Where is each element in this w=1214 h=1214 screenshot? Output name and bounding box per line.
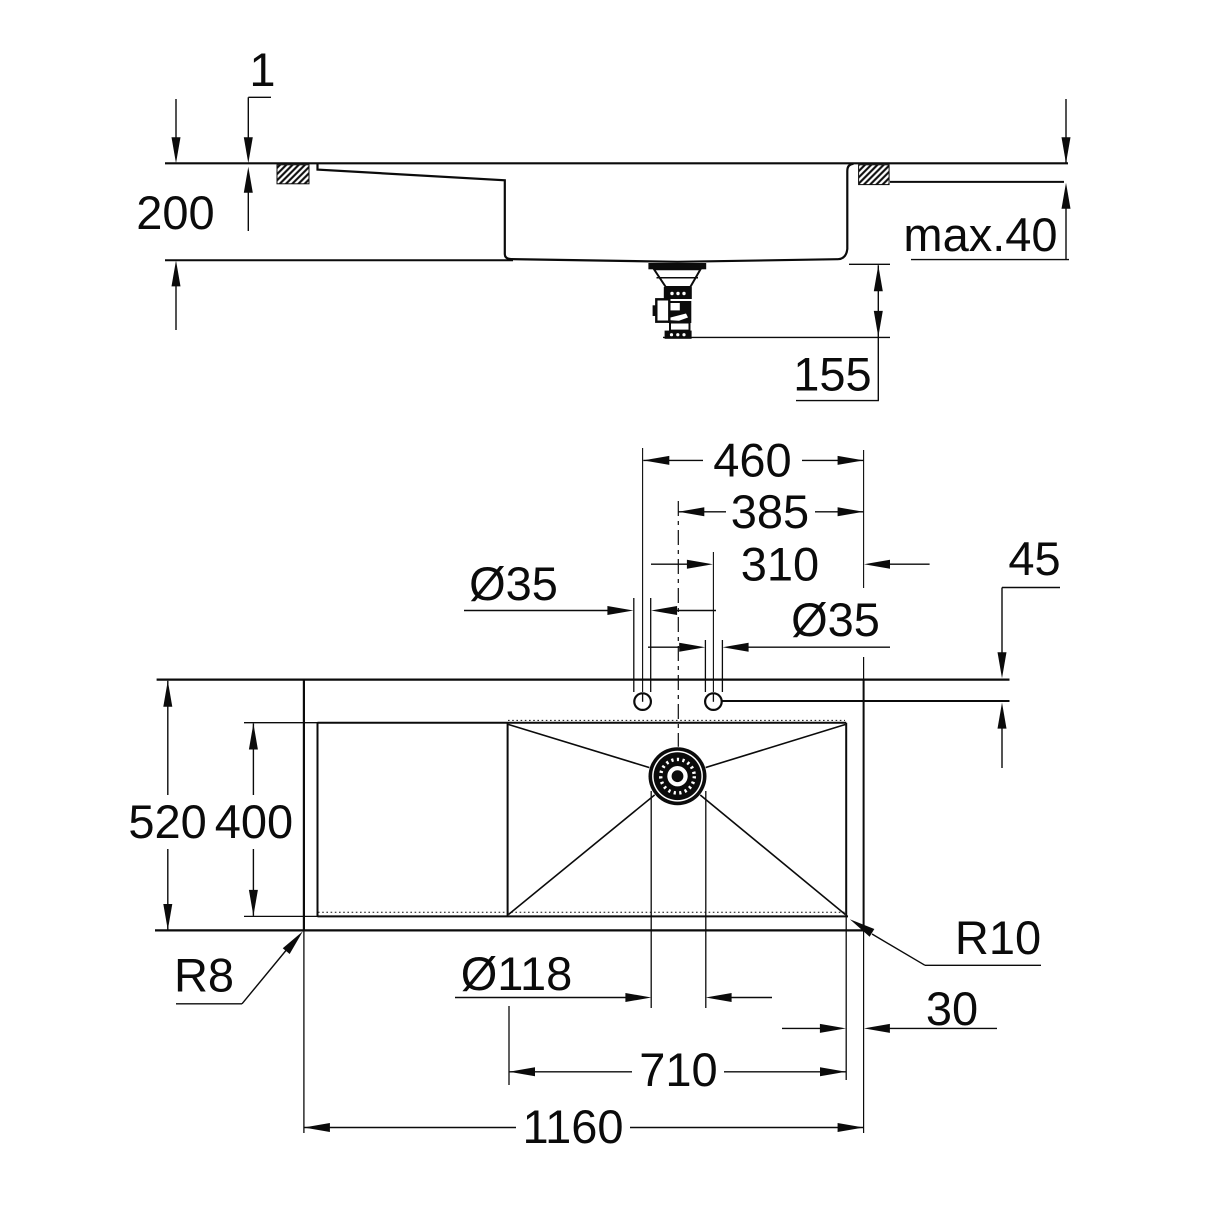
svg-text:155: 155 [793,348,871,401]
svg-text:Ø35: Ø35 [469,557,558,610]
dim 45 lower arrow [998,703,1007,729]
svg-text:30: 30 [926,982,978,1035]
bowl left lower extension line [508,1006,510,1085]
svg-text:Ø118: Ø118 [461,947,573,1000]
drain fitting: flange trapezoid [654,269,701,287]
inner rim left edge [317,723,319,917]
dim R10 leader [925,964,1041,966]
svg-text:310: 310 [741,538,819,591]
dim max.40 lower arrow and leader [1062,183,1071,209]
faucet hole left [634,693,651,710]
dim 520 [167,681,169,795]
sink outer bottom edge [155,929,864,931]
bowl left edge [507,723,509,916]
bowl right edge [845,723,847,917]
countertop front edge [157,678,1010,680]
dim 460 [643,459,703,461]
svg-text:710: 710 [639,1043,717,1096]
drain fitting: lock ring [664,287,692,299]
bowl dotted companion top [508,719,845,721]
svg-text:R10: R10 [955,911,1041,964]
dim 310 (outside arrows) [651,563,689,565]
dim Ø118 leader [455,997,627,999]
drain assembly [648,747,707,806]
dim 1: elbow and text [248,96,271,98]
inner rim top edge [318,722,847,724]
dim 30 [782,1027,822,1029]
faucet hole centre ticks [642,693,644,702]
drain fitting: flange bar [648,263,706,269]
dim 1 lower arrow [244,167,253,193]
drain fitting: body [668,302,691,323]
bowl centre line (dash-dot) [677,501,679,790]
right hole edge extension lines [704,640,706,692]
bowl diagonal bottom-left [509,776,678,914]
bowl diagonal bottom-right [678,776,846,914]
svg-text:45: 45 [1008,532,1060,585]
dim 155 underline [796,400,879,402]
sink right wall with corner radii [838,164,854,259]
svg-text:R8: R8 [174,949,234,1002]
countertop hatch left [277,165,309,184]
drain fitting: bottom stub [665,331,692,339]
dim 710 [509,1071,632,1073]
svg-text:385: 385 [731,485,809,538]
sink left lower extension line [303,931,305,1133]
svg-text:1: 1 [249,43,275,96]
drain edge extension lines [650,791,652,1008]
sink rim back line [723,700,1010,702]
bowl diagonal top-right [678,725,846,777]
dim 400 [252,724,254,796]
dim 155 extension lines [849,263,890,265]
right edge upper extension line [863,450,865,588]
dim 200 lower arrow [172,260,181,286]
faucet hole right [705,693,722,710]
svg-text:460: 460 [713,434,791,487]
svg-text:520: 520 [128,795,206,848]
dim max.40 upper arrow [1065,99,1067,163]
drain fitting: lower neck [670,323,690,331]
bowl diagonal top-left [509,725,678,777]
bowl dotted companion bottom [318,911,846,913]
dim 155 vertical line with arrows [877,265,879,400]
sink bowl bottom (slight V to drain) [511,259,838,262]
left hole centre extension line [642,448,644,692]
svg-text:Ø35: Ø35 [791,593,880,646]
right hole centre extension line [712,552,714,692]
svg-text:max.40: max.40 [903,208,1057,261]
dim R8 leader [176,1003,242,1005]
sink right extension line [863,657,865,1133]
dim Ø35 right [648,646,681,648]
left hole edge extension lines [633,598,635,692]
drain fitting: left outlet [656,299,669,321]
countertop top edge line [165,162,1068,164]
svg-text:200: 200 [136,186,214,239]
dim 200 upper arrow [175,99,177,140]
sink outer right edge [863,680,865,930]
dim 1160 [304,1127,516,1129]
dim 385 [678,511,726,513]
sink profile: left step, drainer slope, bowl left wall [318,163,512,259]
svg-text:400: 400 [215,795,293,848]
countertop hatch right [859,165,890,185]
bowl right lower extension line [845,917,847,1080]
dim Ø35 left leader [464,610,608,612]
200 depth reference line [165,259,513,261]
dim 45 elbow [1002,587,1060,589]
inner rim bottom edge [318,915,849,917]
svg-text:1160: 1160 [522,1100,623,1153]
sink outer left edge [303,680,305,931]
countertop bottom edge right [890,181,1064,183]
